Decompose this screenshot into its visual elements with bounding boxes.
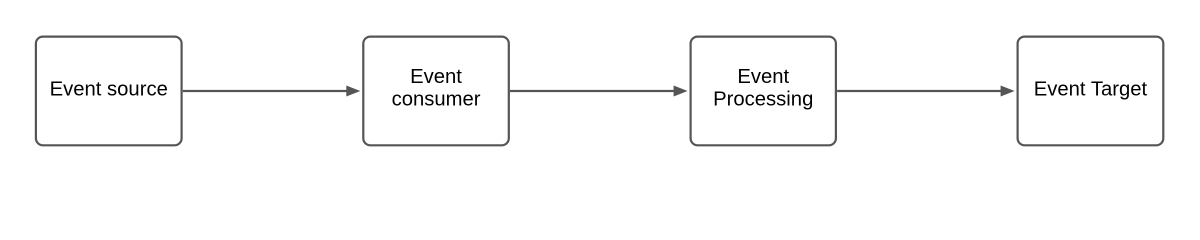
svg-text:consumer: consumer bbox=[392, 89, 481, 111]
svg-text:Event Target: Event Target bbox=[1034, 79, 1148, 101]
svg-text:Event source: Event source bbox=[50, 79, 168, 101]
svg-text:Processing: Processing bbox=[713, 89, 813, 111]
svg-text:Event: Event bbox=[737, 66, 789, 88]
svg-text:Event: Event bbox=[410, 66, 462, 88]
